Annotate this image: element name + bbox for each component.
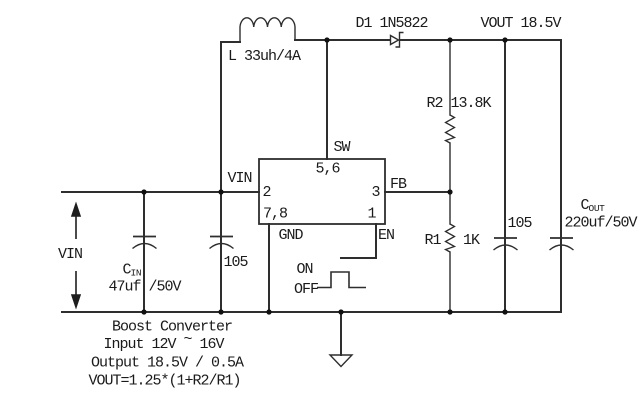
wire FB node to R1: [449, 192, 451, 224]
node dot 105R top: [502, 37, 507, 42]
node dot 105R bottom: [502, 309, 507, 314]
wire FB pin to divider: [385, 191, 450, 193]
svg-text:OFF: OFF: [294, 281, 318, 298]
node dot GND bottom: [266, 309, 271, 314]
svg-text:Output 18.5V / 0.5A: Output 18.5V / 0.5A: [91, 355, 244, 372]
wire GND pin down: [268, 224, 270, 312]
svg-text:SW: SW: [334, 139, 351, 156]
wire right 105 column: [504, 40, 506, 312]
svg-text:EN: EN: [378, 227, 394, 244]
wire EN pin down: [375, 224, 377, 258]
wire COUT column: [560, 40, 562, 312]
svg-text:ON: ON: [297, 261, 313, 278]
wire CIN column: [143, 192, 145, 312]
node dot CIN bottom: [141, 309, 146, 314]
svg-text:R1: R1: [425, 232, 442, 249]
svg-text:105: 105: [508, 215, 533, 232]
svg-text:2: 2: [263, 184, 271, 201]
node dot CIN top: [141, 189, 146, 194]
svg-text:VIN: VIN: [58, 246, 82, 263]
svg-text:105: 105: [224, 254, 249, 271]
wire inductor right to SW node: [295, 39, 327, 41]
wire bottom ground rail: [62, 311, 561, 313]
svg-text:R2 13.8K: R2 13.8K: [427, 95, 492, 112]
svg-text:220uf/50V: 220uf/50V: [565, 215, 638, 232]
wire R1 bottom: [449, 252, 451, 312]
node dot R2 top: [447, 37, 452, 42]
svg-text:L 33uh/4A: L 33uh/4A: [228, 48, 301, 65]
resistor R1: [446, 224, 455, 252]
svg-text:FB: FB: [390, 176, 407, 193]
node dot 105L top: [218, 189, 223, 194]
capacitor 105 left: [210, 237, 234, 249]
wire EN horizontal: [341, 257, 376, 259]
ground symbol: [330, 355, 352, 367]
IC U1 box: [259, 159, 385, 224]
wire ground stem: [340, 312, 342, 355]
node dot FB: [447, 189, 452, 194]
svg-text:3: 3: [372, 184, 381, 201]
wire top-left VIN rail: [62, 191, 259, 193]
svg-text:1: 1: [368, 206, 377, 223]
node dot SW top: [324, 37, 329, 42]
capacitor COUT: [550, 238, 574, 250]
svg-text:VOUT 18.5V: VOUT 18.5V: [481, 15, 562, 32]
EN pulse waveform: [317, 272, 366, 288]
capacitor 105 right: [494, 238, 518, 250]
node dot R1 bottom: [447, 309, 452, 314]
wire diode to VOUT corner: [400, 39, 561, 41]
wire top rail SW node to diode: [327, 39, 390, 41]
VIN source arrow: [72, 204, 80, 307]
svg-text:D11N5822: D11N5822: [356, 15, 428, 32]
svg-text:47uf /50V: 47uf /50V: [109, 279, 182, 296]
diode D1 1N5822: [391, 33, 404, 48]
svg-text:VOUT=1.25*(1+R2/R1): VOUT=1.25*(1+R2/R1): [89, 373, 241, 390]
inductor L 33uh/4A: [240, 18, 295, 42]
wire SW pin vertical: [326, 40, 328, 159]
svg-text:7,8: 7,8: [263, 206, 288, 223]
svg-text:GND: GND: [279, 227, 304, 244]
resistor R2: [446, 115, 455, 143]
wire left 105 / inductor column: [220, 42, 222, 312]
svg-text:5,6: 5,6: [316, 161, 341, 178]
wire R2 top: [449, 40, 451, 115]
svg-text:VIN: VIN: [228, 170, 252, 187]
svg-text:Boost Converter: Boost Converter: [112, 319, 232, 336]
node dot 105L bottom: [218, 309, 223, 314]
wire R2 bottom to FB node: [449, 143, 451, 192]
node dot ground stem: [338, 309, 343, 314]
svg-text:1K: 1K: [463, 232, 480, 249]
wire inductor top-left corner: [221, 41, 240, 43]
capacitor CIN: [133, 237, 157, 249]
